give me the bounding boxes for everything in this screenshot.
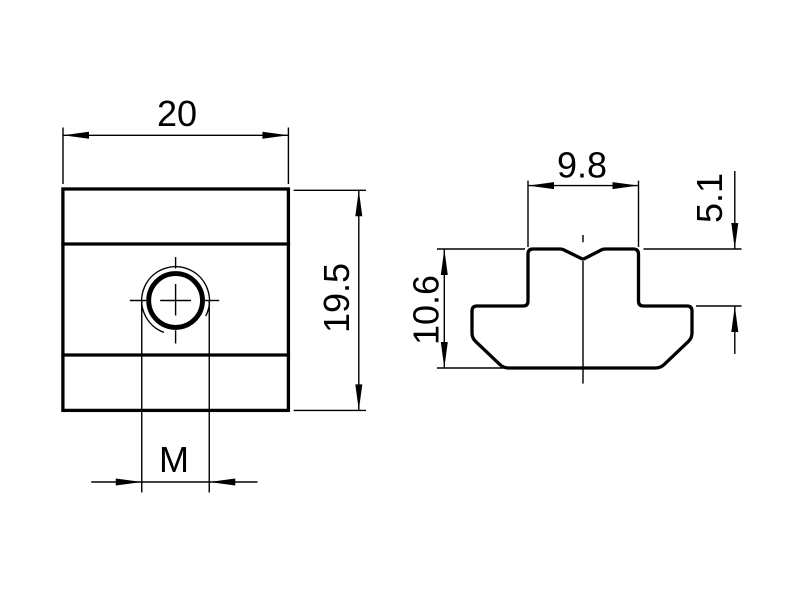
svg-text:20: 20	[157, 93, 197, 134]
top view: slot edge upper	[61, 242, 290, 245]
dimension 9.8: extension lines	[528, 181, 639, 247]
dimension 5.1: extension lines	[644, 249, 742, 306]
dimension 9.8: arrowheads	[528, 182, 554, 189]
svg-text:19.5: 19.5	[316, 263, 357, 333]
svg-text:9.8: 9.8	[557, 145, 607, 186]
tapped hole: minor diameter circle	[149, 274, 203, 328]
side view: T-nut profile outline	[472, 249, 692, 368]
dimension 10.6: dimension line	[443, 249, 445, 368]
dimension 10.6: arrowheads	[441, 249, 448, 275]
dimension 10.6: extension lines	[437, 249, 525, 368]
dimension 20: dimension line	[63, 134, 288, 136]
tapped hole: thread major diameter arc	[142, 267, 210, 333]
top view: nut body outline	[63, 189, 289, 410]
dimension 5.1: arrowheads	[731, 223, 738, 249]
top view: slot edge lower	[61, 353, 290, 356]
side view: vertical centerline	[582, 235, 584, 384]
dimension 19.5: arrowheads	[355, 190, 362, 216]
dimension 20: extension lines	[63, 128, 288, 185]
svg-text:5.1: 5.1	[689, 173, 730, 223]
hole centerline horizontal	[130, 300, 219, 302]
dimension 9.8: dimension line	[528, 185, 639, 187]
dimension 5.1: dimension line with outside arrows	[734, 171, 736, 354]
dimension M: arrowheads	[116, 479, 142, 486]
dimension 19.5: extension lines	[294, 190, 366, 410]
dimension M: dimension line	[91, 481, 257, 483]
dimension M: extension lines	[142, 301, 210, 493]
svg-text:10.6: 10.6	[405, 275, 446, 345]
svg-text:M: M	[159, 439, 189, 480]
dimension 20: arrowheads	[63, 132, 89, 139]
dimension 19.5: dimension line	[358, 190, 360, 410]
hole centerline vertical	[175, 257, 177, 344]
